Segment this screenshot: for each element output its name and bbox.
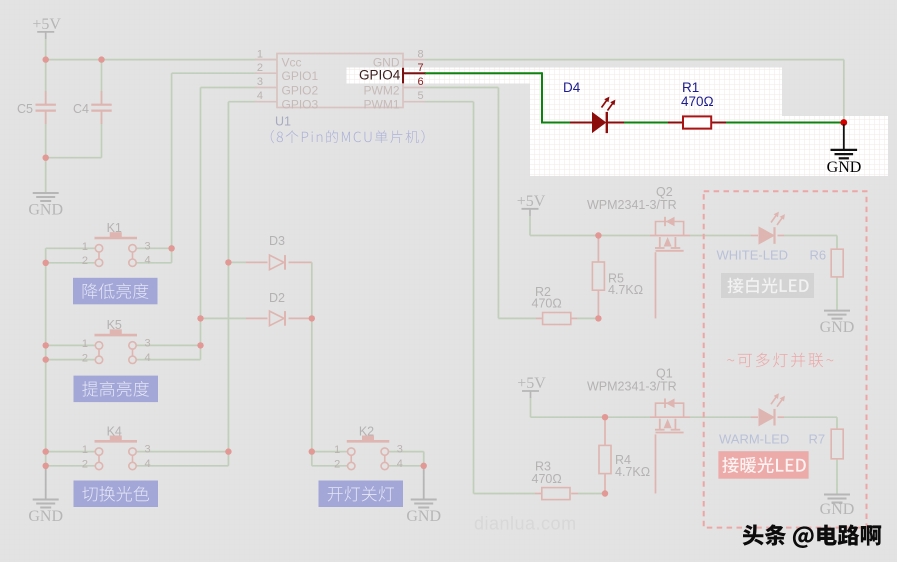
wire PWM2 to R2 <box>425 87 498 89</box>
wire Q2 rail <box>529 216 531 236</box>
ground below R6 <box>824 310 850 312</box>
svg-text:Q1: Q1 <box>656 367 673 381</box>
svg-text:R1: R1 <box>682 80 699 95</box>
wire left rail buttons <box>45 248 47 465</box>
wires K4 <box>46 451 96 453</box>
svg-text:D2: D2 <box>269 291 285 305</box>
svg-text:1: 1 <box>82 338 88 350</box>
pushbutton K5 <box>82 318 151 364</box>
svg-text:470Ω: 470Ω <box>681 94 714 109</box>
svg-text:3: 3 <box>145 240 151 252</box>
ground below R7 <box>824 494 850 496</box>
resistor R4 <box>599 445 611 473</box>
wire C5 branch <box>45 60 47 104</box>
svg-text:GND: GND <box>406 508 441 525</box>
junction (228.4,451.6) <box>225 448 231 454</box>
svg-text:U1: U1 <box>275 115 291 129</box>
wire Q2 gate <box>655 252 657 318</box>
wire R4 leads <box>604 417 606 445</box>
ground below C5 <box>33 192 59 194</box>
svg-text:2: 2 <box>82 255 88 267</box>
junction (45.7,262.8) <box>43 260 49 266</box>
junction (311.8,451.6) <box>309 448 315 454</box>
wire GND pin8 top rail <box>425 59 844 61</box>
junction (45.7,451.6) <box>43 448 49 454</box>
wire R5 leads <box>597 236 599 263</box>
pin stub row 3 <box>403 87 425 89</box>
junction (605,493.5) <box>602 490 608 496</box>
capacitor C4 <box>101 91 103 104</box>
LED WHITE-LED <box>759 212 785 244</box>
wire PWM1 to R3 <box>425 101 474 103</box>
ground highlighted <box>843 124 845 149</box>
wire R6 branch <box>836 236 838 250</box>
wires K5 <box>46 344 96 346</box>
pin stub row 4 <box>403 101 425 103</box>
svg-text:+5V: +5V <box>517 193 546 210</box>
junction (45.7,465.8) <box>43 463 49 469</box>
svg-text:GND: GND <box>827 159 862 176</box>
junction (423.7,465.8) <box>421 463 427 469</box>
svg-text:4: 4 <box>145 352 151 364</box>
svg-text:6: 6 <box>418 76 424 88</box>
svg-text:4: 4 <box>397 458 403 470</box>
svg-text:2: 2 <box>82 352 88 364</box>
svg-text:4.7KΩ: 4.7KΩ <box>615 465 650 479</box>
wire GPIO2 to D2/K5 <box>201 87 258 89</box>
svg-text:GPIO4: GPIO4 <box>359 68 401 83</box>
svg-text:GND: GND <box>820 319 855 336</box>
wire GPIO4 green <box>425 72 542 74</box>
wire GPIO3 to D3/K4 <box>228 101 257 103</box>
junction (200.5,345.4) <box>197 342 203 348</box>
svg-text:4: 4 <box>145 255 151 267</box>
pushbutton K1 <box>82 221 151 267</box>
label box 切换光色 (switch color) <box>74 481 159 508</box>
transistor Q1 <box>587 367 684 433</box>
svg-text:1: 1 <box>82 241 88 253</box>
ground below K2 <box>423 466 425 500</box>
diode D2 <box>269 291 285 326</box>
svg-text:WPM2341-3/TR: WPM2341-3/TR <box>587 198 677 212</box>
resistor R5 <box>592 262 604 290</box>
resistor R3 <box>542 488 570 500</box>
svg-text:GPIO1: GPIO1 <box>282 69 319 83</box>
svg-text:4: 4 <box>145 458 151 470</box>
node GND junction <box>840 119 847 126</box>
svg-text:2: 2 <box>82 459 88 471</box>
label box 提高亮度 (increase brightness) <box>74 376 159 403</box>
svg-text:+5V: +5V <box>517 375 546 392</box>
label box 接白光LED <box>721 273 814 298</box>
svg-text:3: 3 <box>145 444 151 456</box>
svg-text:1: 1 <box>257 49 263 61</box>
svg-text:Vcc: Vcc <box>282 56 302 70</box>
pin 7 stub <box>403 72 426 74</box>
op-amp U1 MCU box <box>277 54 403 108</box>
resistor R7 <box>831 429 843 459</box>
ground below K4 <box>45 466 47 500</box>
resistor R1 <box>668 122 683 124</box>
label box 开灯关灯 (light on/off) <box>319 481 404 508</box>
wire R7 branch <box>836 417 838 429</box>
svg-text:7: 7 <box>418 62 424 74</box>
junction (598.4,235.5) <box>595 232 601 238</box>
junction (45.7,157.7) <box>43 155 49 161</box>
junction (45.7,345.4) <box>43 342 49 348</box>
label box 降低亮度 (reduce brightness) <box>73 278 158 305</box>
junction (605,417.2) <box>602 414 608 420</box>
junction (311.8,318.4) <box>309 315 315 321</box>
junction (598.4,318.4) <box>595 315 601 321</box>
svg-text:2: 2 <box>257 62 263 74</box>
svg-text:5: 5 <box>418 90 424 102</box>
svg-text:PWM1: PWM1 <box>364 98 400 112</box>
dashed parallel-LED box <box>704 191 867 527</box>
junction (228.4,262.4) <box>225 259 231 265</box>
svg-text:WPM2341-3/TR: WPM2341-3/TR <box>587 380 677 394</box>
svg-text:2: 2 <box>334 459 340 471</box>
junction (171.6,248.3) <box>168 245 174 251</box>
pushbutton K2 <box>334 424 403 470</box>
svg-text:D3: D3 <box>269 234 285 248</box>
svg-text:WARM-LED: WARM-LED <box>719 432 789 447</box>
wire C4 branch <box>101 60 103 104</box>
svg-text:GND: GND <box>820 501 855 518</box>
watermark 头条@电路啊 <box>743 524 882 548</box>
svg-text:PWM2: PWM2 <box>364 84 400 98</box>
capacitor C5 <box>45 91 47 104</box>
svg-text:D4: D4 <box>563 80 581 95</box>
svg-text:1: 1 <box>334 444 340 456</box>
svg-text:C4: C4 <box>73 102 89 116</box>
wire D2 cathode down to K2 <box>311 318 313 465</box>
svg-text:+5V: +5V <box>32 16 61 33</box>
svg-text:3: 3 <box>257 76 263 88</box>
wire +5V rail top <box>45 39 47 60</box>
diode D3 <box>269 234 285 270</box>
svg-text:GND: GND <box>28 202 63 219</box>
svg-text:3: 3 <box>145 337 151 349</box>
label 8-pin MCU description <box>271 130 425 143</box>
svg-text:470Ω: 470Ω <box>532 297 562 311</box>
svg-text:470Ω: 470Ω <box>532 472 562 486</box>
pushbutton K4 <box>82 424 151 470</box>
junction (200.5,318.4) <box>197 315 203 321</box>
junction (45.7,59.6) <box>43 56 49 62</box>
pin stub row 1 <box>403 59 425 61</box>
resistor R6 <box>831 249 843 277</box>
svg-text:4: 4 <box>257 90 263 102</box>
svg-text:8: 8 <box>418 49 424 61</box>
LED WARM-LED <box>759 393 785 425</box>
wire Q1 rail <box>530 398 532 418</box>
svg-text:C5: C5 <box>17 102 33 116</box>
wire D2 row <box>201 317 247 319</box>
svg-text:Q2: Q2 <box>656 185 673 199</box>
svg-text:R7: R7 <box>809 432 826 447</box>
label 可多灯并联 <box>727 353 833 368</box>
resistor R2 <box>543 313 571 325</box>
transistor Q2 <box>587 185 684 251</box>
svg-text:GPIO2: GPIO2 <box>282 84 319 98</box>
wires K2 <box>312 451 348 453</box>
svg-text:R6: R6 <box>810 248 827 263</box>
svg-text:1: 1 <box>82 444 88 456</box>
svg-text:GPIO3: GPIO3 <box>282 98 319 112</box>
highlight region around GPIO4 net <box>347 68 889 177</box>
label box 接暖光LED <box>718 451 808 479</box>
svg-text:GND: GND <box>28 508 63 525</box>
svg-text:3: 3 <box>397 444 403 456</box>
svg-text:WHITE-LED: WHITE-LED <box>717 248 789 263</box>
wire Q1 gate <box>655 434 657 493</box>
junction (101.5,59.6) <box>98 56 104 62</box>
svg-text:4.7KΩ: 4.7KΩ <box>608 283 643 297</box>
wire D3 row <box>228 261 246 263</box>
wire GPIO1 to K1 <box>172 72 257 74</box>
wire D3 cathode down <box>311 262 313 318</box>
junction (45.7,359.6) <box>43 356 49 362</box>
LED D4 <box>570 122 592 124</box>
svg-text:dianlua.com: dianlua.com <box>474 514 577 534</box>
wires K1 <box>46 247 96 249</box>
